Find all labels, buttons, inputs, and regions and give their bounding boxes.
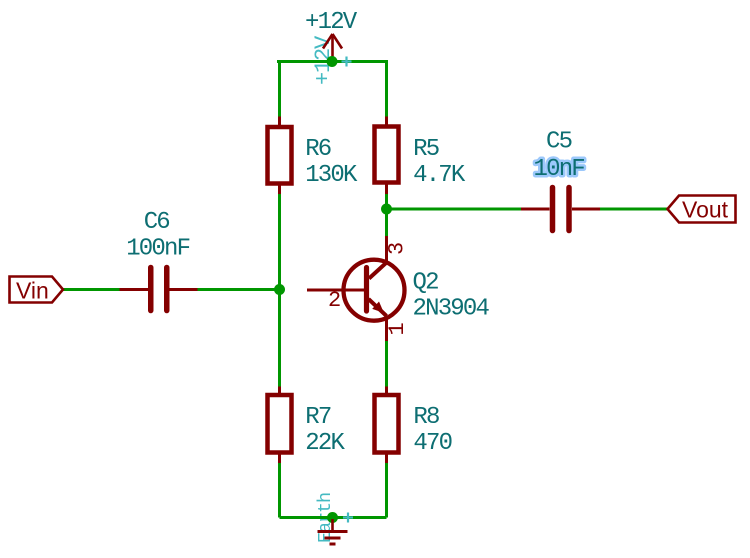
svg-text:Vout: Vout	[682, 197, 729, 223]
svg-text:C5: C5	[546, 129, 572, 156]
svg-text:R6: R6	[305, 136, 331, 163]
wire C5 to Vout	[600, 208, 668, 211]
svg-text:470: 470	[413, 430, 451, 457]
resistor R7	[268, 387, 346, 464]
wire right column top (rail to R5)	[385, 62, 388, 118]
resistor R8	[375, 387, 452, 464]
resistor R6	[268, 117, 359, 195]
wire base node to R7 top	[278, 290, 281, 387]
svg-text:C6: C6	[144, 209, 170, 236]
svg-text:2N3904: 2N3904	[413, 295, 490, 322]
wire R7 bottom to bottom rail	[278, 463, 281, 518]
svg-text:1: 1	[385, 322, 410, 335]
wire R8 bottom to bottom rail	[385, 463, 388, 518]
svg-text:3: 3	[385, 242, 410, 255]
node base junction	[274, 284, 285, 295]
Vin global label	[10, 277, 64, 304]
svg-text:R7: R7	[305, 404, 331, 431]
svg-text:R8: R8	[413, 404, 439, 431]
capacitor C5	[521, 129, 600, 231]
svg-text:10nF: 10nF	[534, 156, 585, 183]
wire Vin to C6	[63, 288, 120, 291]
wire bottom rail	[280, 516, 387, 519]
svg-text:4.7K: 4.7K	[413, 162, 466, 189]
svg-text:+12V: +12V	[305, 9, 358, 36]
node ground junction	[327, 512, 338, 523]
node collector/output junction	[381, 204, 392, 215]
svg-text:Vin: Vin	[16, 278, 49, 304]
svg-text:2: 2	[328, 288, 341, 313]
transistor Q2	[307, 236, 490, 341]
ground Earth	[318, 513, 354, 545]
svg-text:Q2: Q2	[413, 270, 439, 297]
wire left column top (rail to R6)	[278, 62, 281, 118]
capacitor C6	[120, 209, 198, 310]
wire R5 bottom to collector node	[385, 194, 388, 210]
node +12V junction	[327, 56, 338, 67]
wire collector node to C5	[387, 208, 522, 211]
power +12V	[305, 9, 358, 66]
wire C6 to base node	[198, 288, 280, 291]
Vout global label	[668, 196, 736, 223]
resistor R5	[375, 117, 466, 195]
svg-text:22K: 22K	[305, 430, 345, 457]
wire top rail +12V	[277, 60, 388, 63]
svg-text:R5: R5	[413, 136, 439, 163]
svg-text:100nF: 100nF	[126, 236, 189, 263]
wire R6 bottom to base node	[278, 194, 281, 291]
svg-text:130K: 130K	[305, 162, 358, 189]
wire Q2 emitter to R8 top	[385, 341, 388, 387]
wire collector node to Q2 collector	[385, 209, 388, 236]
